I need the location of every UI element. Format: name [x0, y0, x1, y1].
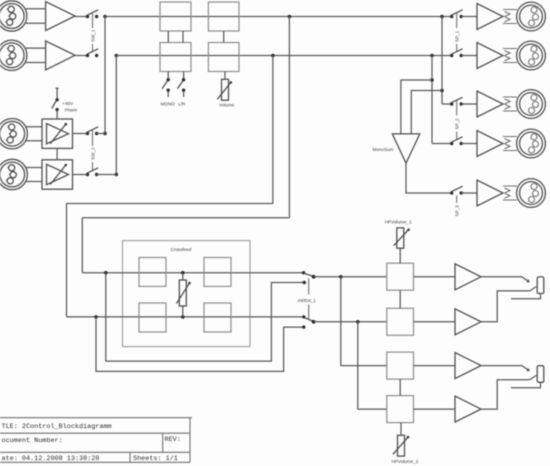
switch SW_2 pole A [86, 127, 99, 135]
switch link SP_2 [456, 101, 458, 140]
switch SW_1 pole A [86, 10, 99, 18]
wire box4 to amp [414, 408, 456, 410]
wire L drop horizontal [82, 217, 289, 219]
node bus R junction [115, 54, 119, 58]
svg-text:Sheets: 1/1: Sheets: 1/1 [133, 455, 178, 463]
wire X1 pin2 to amp [26, 8, 46, 10]
contact HP1 tip arrow [527, 280, 530, 282]
connector jack phones 1 [537, 277, 544, 294]
wire HP R branch to box4 [358, 322, 387, 409]
wire preamp1 to switch [73, 133, 87, 135]
wire box1 to amp [414, 276, 456, 278]
wire R drop vertical [272, 56, 274, 204]
node bypass L tap [104, 271, 108, 275]
wire amp R to switch [75, 55, 87, 57]
node crossfeed pot top [181, 271, 185, 275]
connector X3 mic input 1 (XLR female) [0, 119, 27, 149]
wire L drop vertical [288, 17, 290, 218]
block Crossfeed outer [123, 241, 251, 347]
contact HP2 tip arrow [527, 369, 530, 371]
block input stage L [160, 2, 191, 31]
svg-text:SP_2: SP_2 [455, 118, 460, 130]
potentiometer crossfeed [177, 273, 191, 317]
op-amp output driver 3 [477, 91, 503, 117]
svg-text:SW_1: SW_1 [91, 29, 96, 42]
node HP L branch [339, 275, 343, 279]
block HP attenuator 1 [387, 263, 414, 290]
wire sw5 to amp out5 [461, 192, 477, 194]
node row L to crossfeed tap [288, 15, 292, 19]
wire int/ext B to HP box2 [314, 321, 387, 323]
block crossfeed BR [204, 303, 231, 332]
block volume stage L [208, 2, 239, 31]
node HP R branch [356, 320, 360, 324]
svg-text:Crossfeed: Crossfeed [171, 247, 192, 252]
node R monosum tap [430, 78, 434, 82]
node bus L junction [103, 15, 107, 19]
block volume stage R [208, 43, 239, 72]
switch SW_2 pole B [86, 168, 99, 176]
connector XLR out 3 (male) [503, 90, 545, 119]
node row R to crossfeed tap [271, 54, 275, 58]
wire bus L row to output switch [105, 16, 452, 18]
wire link input stage a [167, 31, 169, 43]
potentiometer HPVolume_2 [393, 423, 409, 456]
wire link volume stage [223, 31, 225, 43]
op-amp MonoSum [392, 134, 420, 163]
wire X1 pin3 to amp [25, 22, 46, 24]
node L monosum tap [440, 89, 444, 93]
svg-text:Int/Ext_1: Int/Ext_1 [298, 298, 317, 303]
wire R drop to crossfeed row2 [66, 204, 68, 317]
wire HP1 sleeve [511, 294, 541, 299]
op-amp output driver 4 [477, 131, 503, 157]
svg-text:L/R: L/R [178, 102, 186, 107]
svg-text:REV:: REV: [165, 436, 181, 444]
wire preamp link phantom [56, 148, 58, 159]
wire HP1 tip [481, 277, 529, 282]
switch SP_2 pole A [450, 97, 463, 105]
wire row4 feed [432, 143, 452, 145]
svg-text:SP_1: SP_1 [455, 30, 460, 42]
wire link box1 box2 [399, 290, 401, 308]
wire mic1 to bus L [97, 133, 105, 135]
block HP attenuator 3 [387, 352, 414, 379]
wire crossfeed row1 [82, 272, 303, 274]
switch link SW_2 [92, 130, 94, 170]
op-amp HP1 R [455, 309, 481, 335]
svg-text:MonoSum: MonoSum [373, 147, 394, 152]
wire monosum out [406, 163, 452, 193]
svg-text:HPVolume_1: HPVolume_1 [385, 220, 412, 225]
switch +48V Phant [52, 88, 59, 119]
svg-text:Phant: Phant [65, 108, 78, 113]
wire mic2 to bus R [97, 174, 117, 176]
wire sw2 to amp out2 [461, 55, 477, 57]
block crossfeed BL [139, 303, 166, 332]
switch Int/Ext pole B [302, 315, 315, 329]
potentiometer HPVolume_1 [394, 228, 410, 263]
op-amp HP2 L [455, 353, 481, 379]
block HP attenuator 2 [387, 308, 414, 335]
switch link SP_3 [456, 196, 458, 204]
connector XLR out 2 (male) [503, 41, 545, 70]
wire row3 feed [442, 103, 452, 105]
wire amp L to switch [75, 16, 87, 18]
switch Int/Ext pole A [302, 271, 316, 284]
switch link Int/Ext [308, 279, 310, 320]
preamp U2 (variable gain) [42, 160, 73, 189]
connector X1 line input L (XLR female) [0, 1, 27, 31]
svg-text:SW_2: SW_2 [91, 147, 96, 160]
wire crossfeed row2 [67, 316, 304, 318]
block HP attenuator 4 [387, 396, 414, 423]
svg-text:HPVolume_2: HPVolume_2 [392, 459, 419, 464]
node crossfeed pot bottom [181, 315, 185, 319]
contact HP1 ring [530, 287, 537, 291]
switch MONO [162, 72, 170, 98]
svg-text:SP_3: SP_3 [455, 205, 460, 217]
connector X4 mic input 2 (XLR female) [0, 159, 27, 189]
wire HP1 ring [481, 291, 530, 322]
wire bus R row to output switch [116, 55, 451, 57]
svg-text:MONO: MONO [161, 102, 176, 107]
switch SW_1 pole B [86, 49, 99, 57]
wire sw4 to amp out4 [461, 143, 477, 145]
wire output bus R vertical [431, 56, 433, 144]
node mic1 junction [103, 132, 107, 136]
wire preamp2 to switch [73, 174, 87, 176]
wire box2 to amp [414, 321, 456, 323]
connector X2 line input R (XLR female) [0, 40, 27, 70]
wire HP2 tip [481, 366, 529, 371]
wire X4 to preamp 2 [25, 168, 42, 182]
op-amp output driver 2 [477, 43, 503, 69]
block crossfeed TL [139, 258, 166, 287]
switch SP_2 pole B [450, 137, 463, 145]
connector XLR out 1 (male) [503, 2, 545, 31]
wire bus R vertical [115, 56, 117, 175]
wire L to monosum [411, 91, 442, 134]
wire X3 to preamp 1 [25, 127, 42, 141]
wire HP2 sleeve [511, 382, 541, 388]
connector jack phones 2 [537, 366, 544, 383]
op-amp output driver 1 [477, 4, 503, 30]
node output bus R junction [430, 54, 434, 58]
node mic2 junction [115, 173, 119, 177]
connector XLR out 5 (male) [503, 179, 545, 208]
svg-text:+48V: +48V [62, 101, 74, 106]
potentiometer Volume [217, 72, 232, 101]
op-amp HP2 R [455, 396, 481, 422]
op-amp HP1 L [455, 264, 481, 290]
wire int/ext A to HP box1 [314, 276, 387, 278]
op-amp line input R [46, 41, 75, 70]
switch SP_1 pole B [450, 49, 463, 57]
wire X2 pin2 to amp [26, 47, 46, 49]
title block frame [0, 418, 192, 463]
preamp U1 (variable gain) [42, 119, 73, 148]
svg-text:Volume: Volume [219, 102, 235, 107]
wire link input stage b [182, 31, 184, 43]
contact HP2 ring [530, 375, 537, 379]
op-amp line input L [46, 2, 75, 31]
switch link SP_1 [456, 13, 458, 51]
switch SP_3 [450, 186, 463, 194]
wire sw1 to amp out1 [461, 16, 477, 18]
switch link SW_1 [92, 13, 94, 51]
wire HP2 ring [481, 380, 530, 409]
wire box3 to amp [414, 365, 456, 367]
switch L/R [177, 72, 185, 98]
wire sw3 to amp out3 [461, 103, 477, 105]
svg-text:ate: 04.12.2008 13:38:28: ate: 04.12.2008 13:38:28 [2, 455, 100, 463]
wire R drop horizontal [67, 203, 273, 205]
node bypass R tap [94, 315, 98, 319]
wire output bus L vertical [441, 17, 443, 105]
wire bypass R [96, 317, 304, 372]
wire R to monosum [401, 80, 432, 134]
wire HP L branch to box3 [341, 277, 387, 366]
connector XLR out 4 (male) [503, 129, 545, 158]
block crossfeed TR [204, 258, 231, 287]
wire link box3 box4 [399, 379, 401, 396]
block input stage R [160, 43, 191, 72]
node output bus L junction [440, 15, 444, 19]
wire X2 pin3 to amp [25, 62, 46, 64]
wire bus L vertical [104, 17, 106, 134]
op-amp output driver 5 [477, 180, 503, 206]
svg-text:ocument Number:: ocument Number: [2, 437, 63, 445]
wire L drop to crossfeed row1 [81, 218, 83, 273]
wire bypass L [106, 273, 304, 361]
svg-text:TLE: 2Control_Blockdiagramm: TLE: 2Control_Blockdiagramm [2, 423, 112, 431]
switch SP_1 pole A [450, 10, 463, 18]
